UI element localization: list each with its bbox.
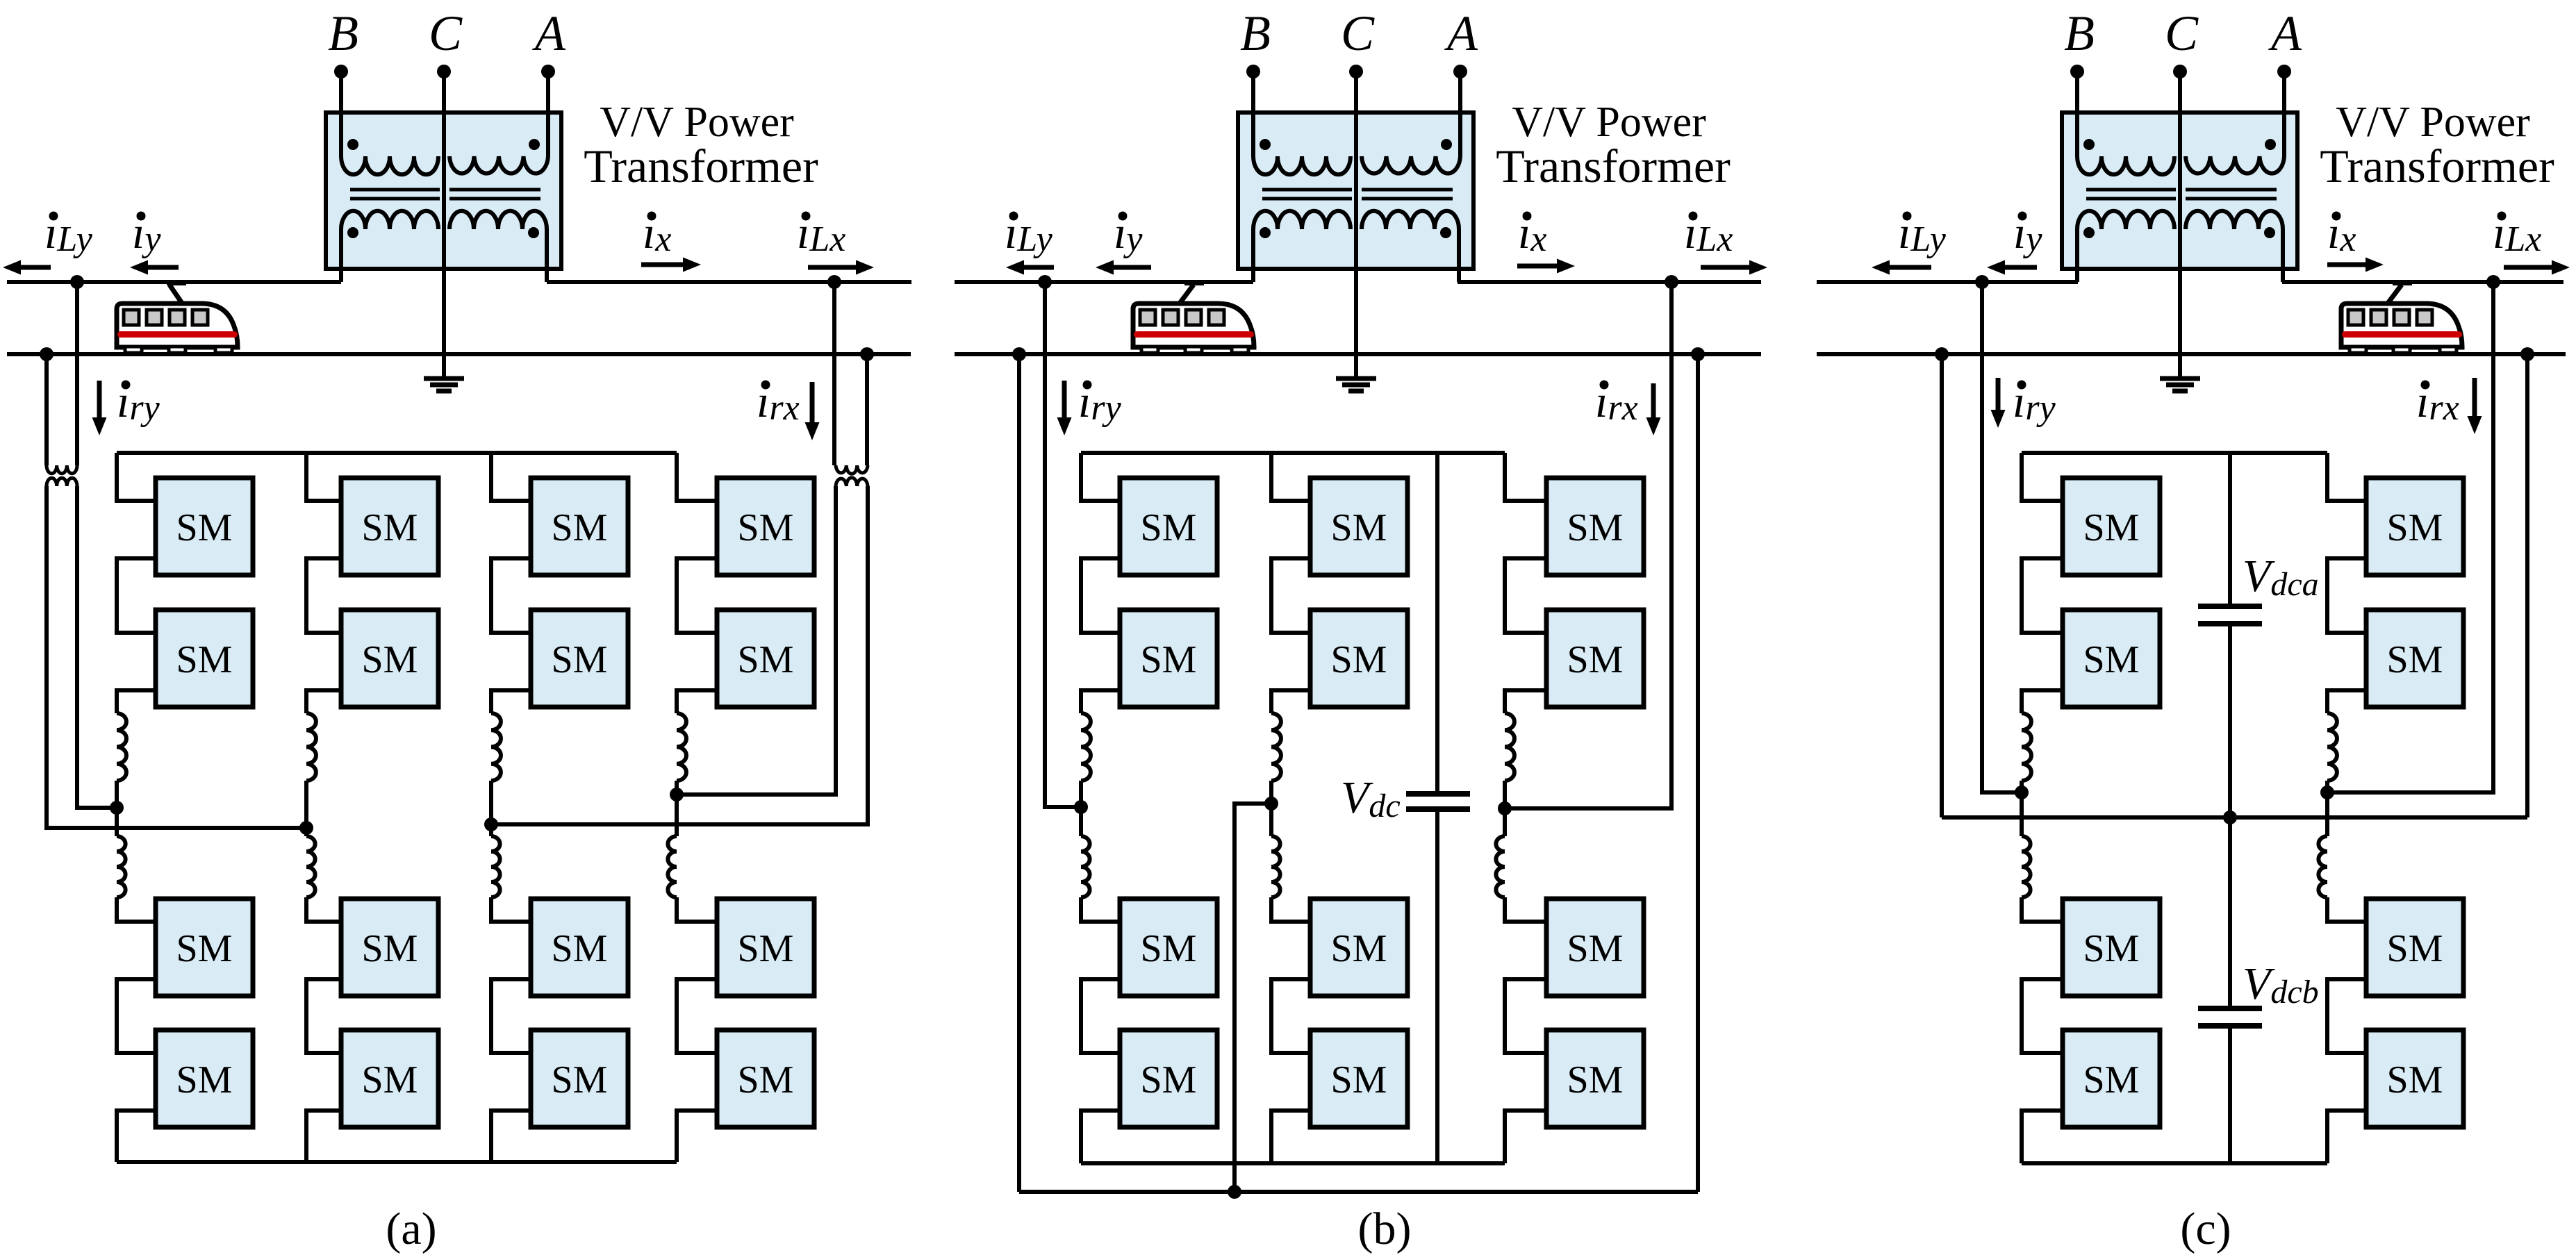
node c1 xyxy=(2015,786,2029,799)
label iry b xyxy=(1078,376,1122,428)
wire a-left rail to interface transformer xyxy=(44,354,49,465)
train a xyxy=(117,280,238,353)
node a1 xyxy=(110,801,124,815)
svg-text:SM: SM xyxy=(176,927,233,970)
inductor a4 upper arm xyxy=(677,713,686,781)
SM c1 lower-1 xyxy=(2063,899,2160,996)
wire a-left catenary to interface transformer xyxy=(75,282,79,465)
label irx c xyxy=(2416,376,2459,428)
wire b-right rail vertical xyxy=(1696,354,1700,1192)
svg-text:C: C xyxy=(1341,6,1375,61)
primary polarity dots a xyxy=(347,139,540,150)
node a2 xyxy=(299,821,313,835)
svg-text:SM: SM xyxy=(2387,506,2443,549)
inductor a4 lower arm xyxy=(668,836,677,897)
secondary polarity dots c xyxy=(2083,227,2275,238)
wire a4 node to lower inductor xyxy=(675,795,679,836)
wire c-right rail vertical xyxy=(2525,354,2529,817)
arrow iLx b xyxy=(1701,265,1749,270)
lower arms bus b xyxy=(1081,1161,1505,1165)
wire c-right catenary vertical xyxy=(2327,282,2493,792)
arrow iry c xyxy=(1996,378,2001,410)
SM b3 lower-2 xyxy=(1546,1030,1644,1127)
SM a1 lower-1 xyxy=(156,899,253,996)
inductor c1 lower arm xyxy=(2022,836,2031,897)
svg-text:SM: SM xyxy=(1141,927,1197,970)
svg-text:SM: SM xyxy=(362,638,418,681)
train b xyxy=(1133,280,1254,353)
rail line a xyxy=(7,352,911,356)
arrow iy c xyxy=(2005,265,2037,270)
phase C terminal b xyxy=(1349,65,1363,354)
wire a1 lower chain xyxy=(117,897,156,1162)
SM a2 upper-2 xyxy=(341,610,438,707)
svg-text:B: B xyxy=(2064,6,2095,61)
wire b3 lower chain xyxy=(1505,897,1546,1163)
svg-text:SM: SM xyxy=(2083,1058,2140,1102)
svg-text:V/V Power: V/V Power xyxy=(600,99,794,146)
catenary node b-right xyxy=(1665,275,1678,289)
wire a-left secondary outer leg to node y2 xyxy=(47,486,306,828)
svg-text:A: A xyxy=(532,6,566,61)
label ix a xyxy=(643,208,671,259)
arrow ix b xyxy=(1517,264,1557,269)
phase B terminal c xyxy=(2070,65,2084,156)
core a xyxy=(350,190,540,199)
arrow irx a xyxy=(810,382,815,422)
inductor a3 upper arm xyxy=(491,713,501,781)
svg-text:SM: SM xyxy=(1567,927,1624,970)
catenary line b (left segment) xyxy=(955,280,1253,284)
wire c1 to node xyxy=(2020,781,2024,792)
SM b3 upper-2 xyxy=(1546,610,1644,707)
label iry c xyxy=(2013,376,2056,428)
label iy b xyxy=(1114,208,1143,259)
svg-text:SM: SM xyxy=(1567,506,1624,549)
core c xyxy=(2086,190,2277,199)
wire b-left rail vertical xyxy=(1017,354,1021,1192)
svg-text:SM: SM xyxy=(1141,638,1197,681)
wire b1 upper chain xyxy=(1081,453,1120,713)
secondary winding c xyxy=(2077,211,2283,282)
primary winding c xyxy=(2077,156,2284,174)
inductor b1 upper arm xyxy=(1081,713,1091,781)
wire a-right secondary inner leg to node y4 xyxy=(677,486,836,795)
SM b2 upper-2 xyxy=(1310,610,1407,707)
arrow ix a xyxy=(641,263,683,267)
label irx a xyxy=(757,376,800,428)
capacitor Vdc xyxy=(1406,794,1470,1163)
phase A terminal b xyxy=(1453,65,1467,156)
svg-text:SM: SM xyxy=(362,927,418,970)
SM c1 upper-1 xyxy=(2063,478,2160,575)
arrow iy a xyxy=(148,265,179,270)
svg-text:SM: SM xyxy=(1141,506,1197,549)
svg-text:SM: SM xyxy=(2083,638,2140,681)
svg-text:SM: SM xyxy=(2387,1058,2443,1102)
inductor c2 lower arm xyxy=(2318,836,2327,897)
phase C terminal c xyxy=(2173,65,2187,354)
SM c1 upper-2 xyxy=(2063,610,2160,707)
SM b2 lower-1 xyxy=(1310,899,1407,996)
node b1 xyxy=(1074,800,1088,814)
node c mid bus xyxy=(2223,811,2237,824)
arrow iry b xyxy=(1062,381,1067,417)
svg-text:SM: SM xyxy=(2083,927,2140,970)
top bus c xyxy=(2022,451,2327,455)
node c2 xyxy=(2320,786,2334,799)
wire a-right catenary to interface transformer xyxy=(832,282,836,465)
node b3 xyxy=(1498,801,1512,815)
phase A terminal c xyxy=(2277,65,2291,156)
svg-text:Transformer: Transformer xyxy=(1496,140,1731,192)
ground symbol a xyxy=(424,354,464,391)
capacitor Vdca xyxy=(2198,606,2262,1008)
SM a4 upper-1 xyxy=(717,478,814,575)
wire c2 lower chain xyxy=(2327,897,2366,1163)
svg-text:SM: SM xyxy=(2387,638,2443,681)
SM c2 upper-2 xyxy=(2366,610,2463,707)
arrow irx b xyxy=(1651,383,1656,417)
svg-text:C: C xyxy=(2165,6,2199,61)
wire a4 to node xyxy=(675,781,679,795)
phase B terminal b xyxy=(1246,65,1260,156)
inductor b1 lower arm xyxy=(1081,836,1090,897)
inductor a2 lower arm xyxy=(306,836,315,897)
label iry a xyxy=(117,376,160,428)
wire a4 upper chain xyxy=(677,453,717,713)
label iLx a xyxy=(797,208,845,259)
mid return bus c xyxy=(1942,815,2527,820)
arrow ix c xyxy=(2327,263,2366,267)
primary polarity dots c xyxy=(2083,139,2276,150)
rail node c-left xyxy=(1935,347,1949,361)
svg-text:V/V Power: V/V Power xyxy=(1512,99,1706,146)
inductor a1 lower arm xyxy=(117,836,126,897)
interface transformer a-right xyxy=(836,465,868,486)
rail node b-left xyxy=(1012,347,1026,361)
label iLy a xyxy=(44,208,93,259)
phase C terminal a xyxy=(437,65,451,354)
catenary node c-right xyxy=(2486,275,2500,289)
rail node b-right xyxy=(1691,347,1705,361)
wire a4 lower chain xyxy=(677,897,717,1162)
catenary line a (left segment) xyxy=(7,280,341,284)
catenary node b-left xyxy=(1038,275,1052,289)
wire b3 upper chain xyxy=(1505,453,1546,713)
catenary node a-left xyxy=(70,275,84,289)
label iLy c xyxy=(1898,208,1947,259)
arrow iLx c xyxy=(2504,265,2552,270)
label iLy b xyxy=(1005,208,1053,259)
arrow iy b xyxy=(1114,265,1151,270)
transformer Ta box xyxy=(326,113,561,269)
interface transformer a-left xyxy=(47,465,77,486)
SM c1 lower-2 xyxy=(2063,1030,2160,1127)
label ix c xyxy=(2327,208,2356,259)
wire a1 to node xyxy=(115,781,119,808)
arrow iLx a xyxy=(808,265,856,270)
wire b2 to node xyxy=(1269,781,1273,804)
catenary line b (right segment) xyxy=(1458,280,1761,284)
label iy c xyxy=(2013,208,2042,259)
label iLx c xyxy=(2493,208,2541,259)
svg-text:(b): (b) xyxy=(1358,1204,1412,1254)
rail line b xyxy=(955,352,1761,356)
svg-text:Transformer: Transformer xyxy=(2320,140,2554,192)
secondary polarity dots b xyxy=(1260,227,1451,238)
wire c1 lower chain xyxy=(2022,897,2063,1163)
catenary line c (right segment) xyxy=(2282,280,2563,284)
SM b1 lower-2 xyxy=(1120,1030,1217,1127)
node b return bus xyxy=(1228,1185,1241,1199)
arrow iLy a xyxy=(21,265,51,270)
svg-text:SM: SM xyxy=(552,638,608,681)
SM a4 lower-1 xyxy=(717,899,814,996)
SM a3 lower-1 xyxy=(531,899,628,996)
ground symbol b xyxy=(1336,354,1376,391)
inductor b3 lower arm xyxy=(1496,836,1505,897)
ground symbol c xyxy=(2160,354,2200,391)
wire c1 node to lower inductor xyxy=(2020,792,2024,836)
arrow iry a xyxy=(97,381,102,417)
svg-text:Transformer: Transformer xyxy=(584,140,818,192)
SM b3 upper-1 xyxy=(1546,478,1644,575)
rail line c xyxy=(1817,352,2566,356)
wire a1 node to lower inductor xyxy=(115,808,119,836)
wire a3 lower chain xyxy=(491,897,531,1162)
svg-text:SM: SM xyxy=(738,1058,794,1102)
wire b1 to node xyxy=(1079,781,1083,807)
catenary node c-left xyxy=(1975,275,1989,289)
inductor c1 upper arm xyxy=(2022,713,2031,781)
svg-text:SM: SM xyxy=(362,506,418,549)
bottom bus a xyxy=(117,1160,677,1164)
SM c2 upper-1 xyxy=(2366,478,2463,575)
wire c2 node to lower inductor xyxy=(2325,792,2329,836)
wire b1 node to lower inductor xyxy=(1079,807,1083,836)
wire b2 node to lower inductor xyxy=(1269,804,1273,836)
SM a1 upper-1 xyxy=(156,478,253,575)
train c xyxy=(2341,280,2462,353)
SM a3 upper-1 xyxy=(531,478,628,575)
SM a3 upper-2 xyxy=(531,610,628,707)
rail node c-right xyxy=(2520,347,2534,361)
wire b-left catenary vertical xyxy=(1045,282,1081,807)
svg-text:SM: SM xyxy=(1141,1058,1197,1102)
wire b1 lower chain xyxy=(1081,897,1120,1163)
bottom bus c xyxy=(2022,1161,2327,1165)
catenary line a (right segment) xyxy=(547,280,911,284)
svg-text:SM: SM xyxy=(1331,638,1387,681)
wire a2 upper chain xyxy=(306,453,341,713)
bottom return bus b xyxy=(1019,1190,1698,1194)
svg-text:SM: SM xyxy=(2083,506,2140,549)
top bus b xyxy=(1081,451,1505,455)
label ix b xyxy=(1518,208,1546,259)
svg-text:SM: SM xyxy=(1331,1058,1387,1102)
SM b3 lower-1 xyxy=(1546,899,1644,996)
wire a-left secondary inner leg to node y1 xyxy=(77,486,117,808)
svg-text:C: C xyxy=(429,6,463,61)
wire a1 upper chain xyxy=(117,453,156,713)
SM b2 lower-2 xyxy=(1310,1030,1407,1127)
wire a3 node to lower inductor xyxy=(489,824,493,836)
phase B terminal a xyxy=(334,65,348,156)
wire b3 to node xyxy=(1503,781,1507,808)
phase A terminal a xyxy=(541,65,555,156)
primary polarity dots b xyxy=(1260,139,1452,150)
wire a3 to node xyxy=(489,781,493,824)
catenary line c (left segment) xyxy=(1817,280,2078,284)
transformer Tc box xyxy=(2062,113,2297,269)
wire c2 to node xyxy=(2325,781,2329,792)
svg-text:A: A xyxy=(2268,6,2302,61)
dc link riser b xyxy=(1435,453,1439,794)
svg-text:SM: SM xyxy=(2387,927,2443,970)
wire a2 node to lower inductor xyxy=(304,828,308,836)
inductor b3 upper arm xyxy=(1505,713,1514,781)
inductor c2 upper arm xyxy=(2327,713,2337,781)
SM a2 lower-1 xyxy=(341,899,438,996)
svg-text:SM: SM xyxy=(1331,927,1387,970)
svg-text:(c): (c) xyxy=(2180,1204,2231,1254)
catenary node a-right xyxy=(827,275,841,289)
SM b2 upper-1 xyxy=(1310,478,1407,575)
core b xyxy=(1262,190,1453,199)
transformer Tb box xyxy=(1238,113,1473,269)
node b2 xyxy=(1264,797,1278,811)
wire a2 lower chain xyxy=(306,897,341,1162)
svg-text:SM: SM xyxy=(176,506,233,549)
SM a4 lower-2 xyxy=(717,1030,814,1127)
SM a3 lower-2 xyxy=(531,1030,628,1127)
svg-text:SM: SM xyxy=(1567,1058,1624,1102)
SM b1 upper-2 xyxy=(1120,610,1217,707)
SM a1 upper-2 xyxy=(156,610,253,707)
primary winding b xyxy=(1253,156,1460,174)
wire b-mid node jog to return bus xyxy=(1235,804,1271,1192)
wire c-left catenary vertical xyxy=(1982,282,2022,792)
wire b3 node to lower inductor xyxy=(1503,808,1507,836)
SM b1 lower-1 xyxy=(1120,899,1217,996)
inductor a1 upper arm xyxy=(117,713,126,781)
svg-text:SM: SM xyxy=(176,1058,233,1102)
svg-text:V/V Power: V/V Power xyxy=(2336,99,2530,146)
svg-text:SM: SM xyxy=(552,1058,608,1102)
dc link riser c xyxy=(2228,453,2232,606)
wire c1 upper chain xyxy=(2022,453,2063,713)
rail node a-right xyxy=(860,347,874,361)
wire a-right secondary outer leg to node y3 xyxy=(491,486,868,824)
svg-text:A: A xyxy=(1444,6,1478,61)
svg-text:SM: SM xyxy=(738,506,794,549)
wire b2 upper chain xyxy=(1271,453,1310,713)
top bus a xyxy=(117,451,677,455)
label iLx b xyxy=(1684,208,1733,259)
primary winding a xyxy=(341,156,548,174)
rail node a-left xyxy=(40,347,53,361)
inductor b2 upper arm xyxy=(1271,713,1281,781)
inductor a2 upper arm xyxy=(306,713,316,781)
SM a1 lower-2 xyxy=(156,1030,253,1127)
wire a-right rail to interface transformer xyxy=(865,354,869,465)
label iy a xyxy=(132,208,161,259)
wire b-right catenary vertical xyxy=(1508,282,1671,808)
svg-text:B: B xyxy=(1240,6,1271,61)
svg-text:SM: SM xyxy=(1567,638,1624,681)
secondary winding b xyxy=(1253,211,1459,282)
svg-text:SM: SM xyxy=(738,638,794,681)
inductor a3 lower arm xyxy=(491,836,500,897)
SM a2 lower-2 xyxy=(341,1030,438,1127)
wire c2 upper chain xyxy=(2327,453,2366,713)
label irx b xyxy=(1595,376,1638,428)
SM b1 upper-1 xyxy=(1120,478,1217,575)
SM a2 upper-1 xyxy=(341,478,438,575)
svg-text:SM: SM xyxy=(176,638,233,681)
capacitor Vdcb xyxy=(2198,1008,2262,1163)
svg-text:SM: SM xyxy=(552,506,608,549)
svg-text:(a): (a) xyxy=(386,1204,436,1254)
svg-text:SM: SM xyxy=(362,1058,418,1102)
svg-text:SM: SM xyxy=(738,927,794,970)
wire c-left rail vertical xyxy=(1940,354,1944,817)
node a4 xyxy=(670,788,684,801)
arrow iLy c xyxy=(1890,265,1931,270)
wire b2 lower chain xyxy=(1271,897,1310,1163)
arrow irx c xyxy=(2472,378,2477,416)
svg-text:SM: SM xyxy=(552,927,608,970)
SM a4 upper-2 xyxy=(717,610,814,707)
arrow iLy b xyxy=(1024,265,1054,270)
wire a2 to node xyxy=(304,781,308,828)
secondary winding a xyxy=(341,211,547,282)
wire a3 upper chain xyxy=(491,453,531,713)
node a3 xyxy=(484,817,498,831)
secondary polarity dots a xyxy=(347,227,539,238)
inductor b2 lower arm xyxy=(1271,836,1280,897)
svg-text:B: B xyxy=(328,6,358,61)
SM c2 lower-1 xyxy=(2366,899,2463,996)
svg-text:SM: SM xyxy=(1331,506,1387,549)
SM c2 lower-2 xyxy=(2366,1030,2463,1127)
